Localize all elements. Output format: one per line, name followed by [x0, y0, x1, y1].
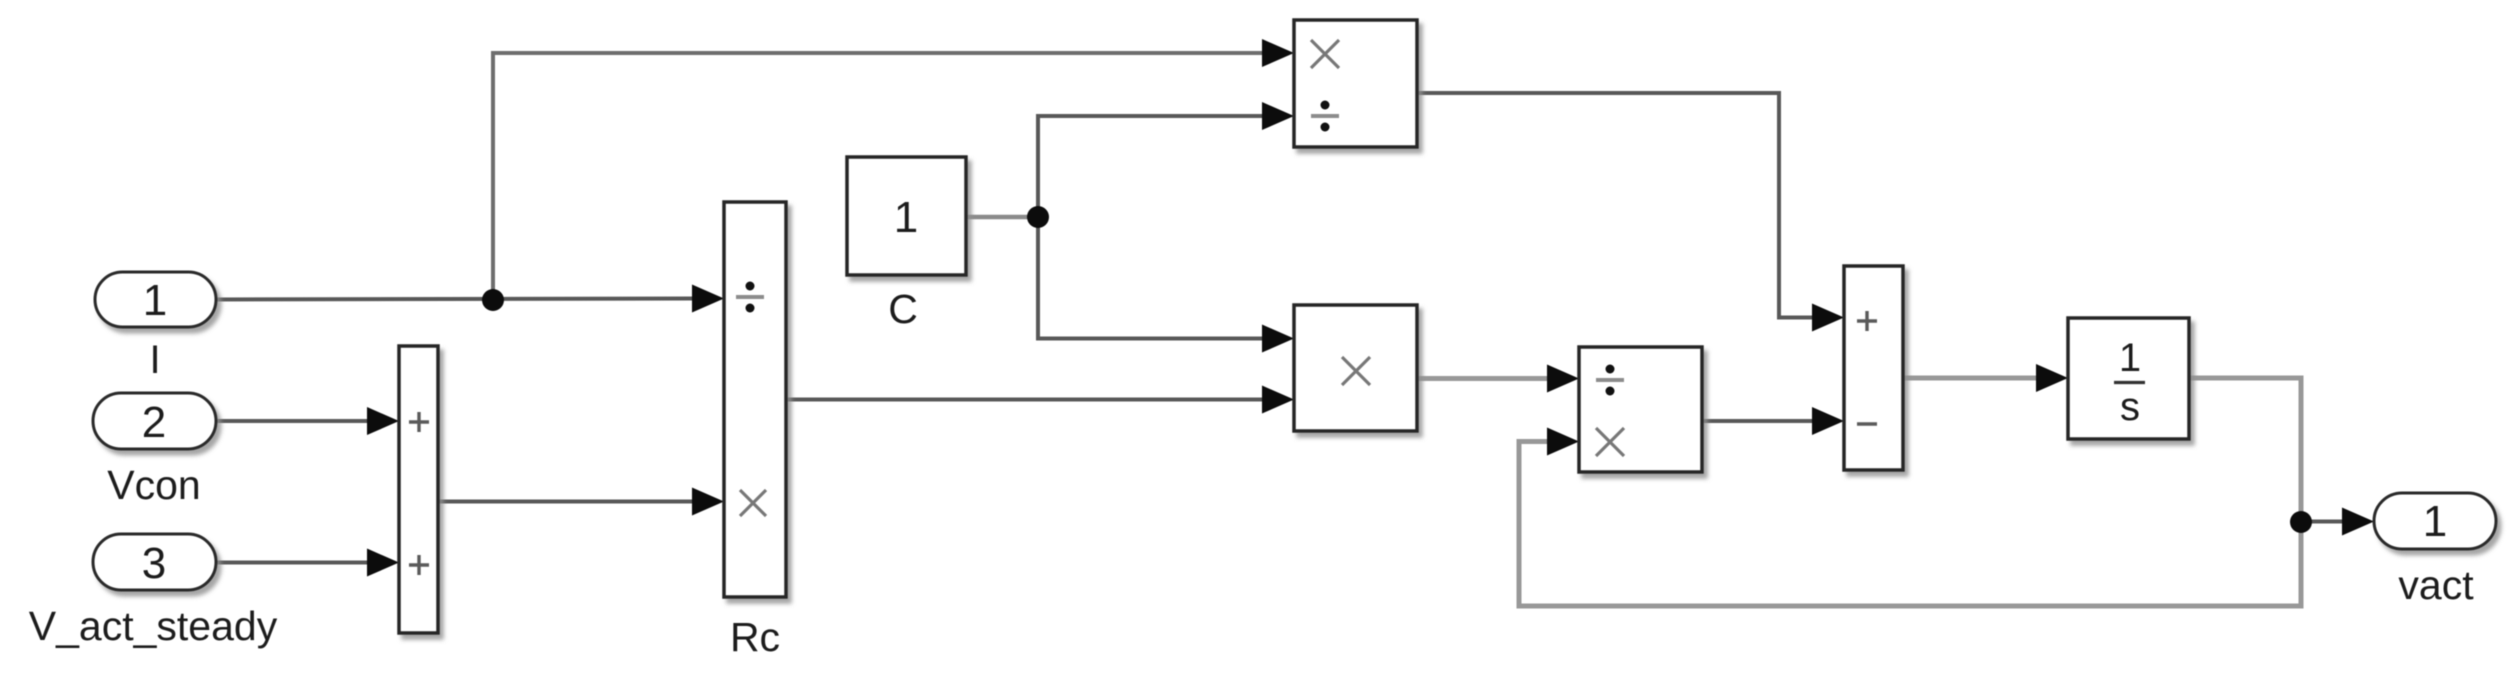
node C junction dot: [2290, 511, 2312, 533]
wire branch from node B up to top Divide block divide input: [1038, 102, 1294, 217]
wire branch from node B down to middle Product first input: [1038, 217, 1294, 353]
wire from Inport 1 to junction and Rc divide input: [216, 285, 724, 313]
wire from Add2 output to Integrator input: [1903, 364, 2068, 392]
Inport 2 block: [93, 393, 216, 449]
wire from Constant C to node B: [966, 215, 1038, 220]
multiply symbol of middle Product block: [1342, 357, 1370, 385]
svg-text:1: 1: [894, 193, 918, 242]
wire from Inport 2 to Add block first input: [216, 407, 399, 435]
svg-text:vact: vact: [2398, 562, 2474, 608]
svg-text:C: C: [888, 286, 918, 332]
svg-text:3: 3: [142, 539, 166, 588]
multiply symbol of top Divide block: [1311, 40, 1339, 68]
node B junction dot: [1027, 206, 1049, 228]
svg-text:1: 1: [2423, 497, 2447, 546]
wire from Add block output to Rc multiply input: [438, 488, 724, 516]
Constant block C: [847, 157, 966, 275]
plus sign of Add2 block: [1857, 311, 1877, 331]
multiply symbol of Divide2 block: [1596, 428, 1624, 456]
svg-text:Rc: Rc: [730, 614, 780, 660]
Rc Divide block: [724, 202, 786, 597]
svg-text:Vcon: Vcon: [107, 462, 200, 508]
Inport 1 block: [95, 272, 216, 327]
middle Product block: [1294, 305, 1417, 431]
Add block (two plus inputs): [399, 346, 438, 633]
wire from Divide2 output to Add2 minus input: [1702, 407, 1844, 435]
svg-text:s: s: [2120, 385, 2140, 429]
wire from middle Product output to Divide2 divide input: [1417, 365, 1579, 393]
svg-text:1: 1: [143, 276, 167, 325]
node A junction dot: [482, 289, 504, 311]
svg-text:2: 2: [142, 398, 166, 447]
Add2 block (plus minus): [1844, 266, 1903, 470]
plus sign input 1 of Add block: [409, 412, 429, 432]
divide symbol of top Divide block: [1311, 101, 1339, 132]
divide symbol of Rc block: [736, 282, 764, 313]
wire from Rc output to middle Product second input: [786, 386, 1294, 414]
plus sign input 2 of Add block: [409, 555, 429, 575]
top Divide block (x over divide): [1294, 20, 1417, 147]
svg-text:1: 1: [2119, 336, 2141, 380]
wire from top Divide output to Add2 plus input: [1417, 93, 1844, 332]
multiply symbol of Rc block: [740, 490, 766, 516]
svg-text:I: I: [149, 338, 160, 382]
Outport vact block: [2374, 493, 2496, 549]
wire branch from node A up to top Divide block x input: [493, 39, 1294, 299]
Divide2 block (divide over x): [1579, 347, 1702, 472]
Integrator block 1/s: [2068, 318, 2189, 439]
Inport 3 block: [93, 534, 216, 590]
wire from node C to Outport vact: [2301, 508, 2374, 536]
minus sign of Add2 block: [1857, 422, 1877, 425]
divide symbol of Divide2 block: [1596, 365, 1624, 396]
feedback wire from Integrator output down and back to Divide2 multiply input: [1519, 378, 2301, 606]
wire from Inport 3 to Add block second input: [216, 549, 399, 577]
svg-text:V_act_steady: V_act_steady: [29, 603, 278, 649]
